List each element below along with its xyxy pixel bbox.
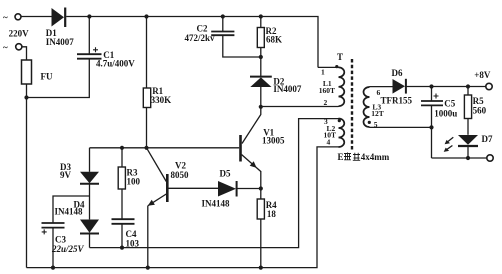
node C5 mid: [429, 125, 433, 129]
svg-text:18: 18: [267, 209, 277, 219]
wire L3 pin5: [370, 126, 432, 128]
AC input terminal N: [3, 43, 22, 53]
resistor R2: [257, 17, 282, 58]
svg-text:100: 100: [127, 177, 141, 187]
svg-text:TFR155: TFR155: [381, 96, 413, 106]
svg-text:T: T: [337, 52, 343, 62]
svg-text:C5: C5: [444, 99, 455, 109]
capacitor C3: [42, 196, 90, 268]
svg-text:1000u: 1000u: [434, 109, 457, 119]
svg-text:+8V: +8V: [474, 70, 491, 80]
node D7 bottom: [466, 156, 470, 160]
wire bottom rail: [27, 147, 339, 268]
svg-text:C4: C4: [126, 229, 137, 239]
output terminal 0V: [487, 155, 493, 161]
svg-text:D5: D5: [220, 168, 231, 178]
AC input terminal L: [3, 13, 29, 39]
wire output low rail: [432, 157, 487, 159]
node D5-R4: [259, 186, 263, 190]
svg-text:D7: D7: [482, 134, 493, 144]
svg-text:4: 4: [327, 138, 331, 147]
LED D7: [444, 134, 493, 158]
resistor R3: [118, 148, 140, 219]
diode D1: [46, 8, 75, 47]
svg-text:22u/25V: 22u/25V: [51, 244, 85, 254]
node C3 bottom: [51, 266, 55, 270]
node C4 bottom: [120, 246, 124, 250]
svg-text:9V: 9V: [60, 170, 72, 180]
svg-text:560: 560: [473, 105, 487, 115]
wire V1 base: [90, 147, 240, 149]
node snubber: [259, 55, 263, 59]
svg-text:C3: C3: [55, 234, 66, 244]
diode D5: [202, 168, 261, 208]
svg-text:IN4007: IN4007: [273, 84, 302, 94]
svg-text:220V: 220V: [9, 29, 30, 39]
wire: [22, 47, 27, 60]
wire pin2 lead: [261, 106, 339, 108]
node R3 top: [120, 146, 124, 150]
transistor V1: [241, 107, 286, 172]
winding L2 10T: [324, 117, 345, 147]
svg-text:~: ~: [3, 13, 8, 23]
svg-text:8050: 8050: [171, 170, 190, 180]
diode D6: [381, 68, 413, 106]
node R5 top: [466, 84, 470, 88]
output terminal +8V: [474, 70, 492, 90]
node C5 top: [429, 84, 433, 88]
resistor R5: [464, 87, 486, 135]
wire +8V rail: [407, 86, 486, 88]
winding L3 12T: [364, 87, 384, 129]
capacitor C5: [421, 87, 457, 159]
winding L1 160T: [318, 65, 344, 107]
label E core: [338, 152, 390, 162]
node R4 bottom: [259, 266, 263, 270]
wire L3 to D6: [370, 86, 393, 88]
svg-text:IN4007: IN4007: [46, 37, 75, 47]
svg-text:2: 2: [324, 98, 328, 107]
zener D3: [60, 148, 99, 220]
node R2 top: [259, 14, 263, 18]
svg-text:IN4148: IN4148: [55, 207, 84, 217]
svg-text:13005: 13005: [262, 135, 285, 145]
svg-text:103: 103: [126, 238, 140, 248]
diode D4: [55, 199, 100, 247]
svg-text:D6: D6: [392, 68, 403, 78]
transistor V2: [147, 148, 219, 268]
node collector: [259, 105, 263, 109]
svg-text:330K: 330K: [151, 95, 172, 105]
node C2 top: [221, 14, 225, 18]
wire feedback line: [90, 119, 339, 248]
resistor R4: [257, 171, 277, 268]
node C1 top: [87, 14, 91, 18]
svg-text:FU: FU: [41, 72, 53, 82]
capacitor C4: [112, 219, 140, 248]
svg-text:IN4148: IN4148: [202, 198, 231, 208]
capacitor C1: [77, 17, 135, 69]
svg-text:~: ~: [3, 43, 8, 53]
resistor R1: [143, 17, 171, 148]
fuse FU: [22, 60, 53, 84]
node R1 top: [144, 14, 148, 18]
wire left rail: [26, 84, 28, 268]
wire: [21, 16, 51, 18]
svg-text:472/2kv: 472/2kv: [185, 33, 216, 43]
svg-text:4x4mm: 4x4mm: [361, 152, 390, 162]
svg-text:E: E: [338, 152, 344, 162]
wire top rail: [66, 17, 318, 68]
capacitor C2: [185, 17, 261, 58]
transformer T core: [337, 52, 352, 151]
wire to C1 bottom: [27, 59, 90, 98]
node fuse-C1: [24, 95, 28, 99]
diode D2: [250, 57, 302, 107]
node V2 emitter bottom: [146, 266, 150, 270]
node R1 bottom: [144, 146, 148, 150]
svg-text:68K: 68K: [266, 35, 282, 45]
svg-text:4.7u/400V: 4.7u/400V: [96, 59, 135, 69]
svg-text:1: 1: [321, 68, 325, 77]
svg-text:160T: 160T: [319, 86, 335, 95]
svg-text:12T: 12T: [371, 109, 384, 118]
